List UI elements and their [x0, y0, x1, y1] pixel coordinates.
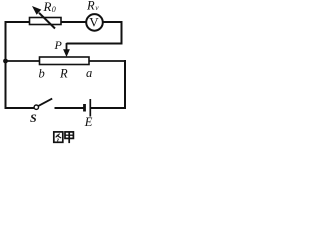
svg-text:v: v	[95, 3, 99, 12]
voltmeter U (circle)	[86, 14, 103, 31]
wiper arrow of potentiometer	[66, 43, 68, 50]
wire: switch to battery	[55, 107, 84, 109]
wire: junction to potentiometer	[6, 60, 41, 62]
svg-text:b: b	[39, 67, 45, 81]
wire: voltmeter to top-right corner, down and left to wiper	[67, 22, 122, 44]
switch S blade	[38, 99, 52, 106]
svg-text:R: R	[43, 0, 52, 14]
wire: bottom-left to switch	[5, 107, 35, 109]
wire: potentiometer to right vertical	[89, 60, 126, 62]
resistor R0 body	[30, 18, 62, 25]
svg-text:V: V	[89, 15, 99, 30]
battery E short plate	[83, 104, 86, 112]
caption 甲 (drawn strokes)	[65, 132, 73, 143]
switch S pivot	[34, 105, 38, 109]
svg-text:R: R	[59, 67, 68, 81]
battery E long plate	[89, 99, 91, 117]
wire: left vertical	[5, 21, 7, 109]
resistor R0 arrow	[39, 13, 55, 29]
wire: right vertical	[124, 60, 126, 109]
caption 图 (drawn strokes)	[54, 132, 63, 142]
potentiometer R body	[40, 57, 90, 65]
svg-text:S: S	[30, 111, 37, 125]
svg-text:0: 0	[52, 5, 56, 14]
svg-text:a: a	[86, 66, 92, 80]
wire: top-left horizontal	[5, 21, 31, 23]
node: junction on left vertical	[3, 59, 8, 64]
wire: battery to bottom-right	[91, 107, 126, 109]
svg-text:E: E	[84, 115, 93, 129]
svg-text:R: R	[86, 0, 95, 12]
wire: R0 to voltmeter	[61, 21, 87, 23]
svg-text:P: P	[54, 38, 63, 52]
